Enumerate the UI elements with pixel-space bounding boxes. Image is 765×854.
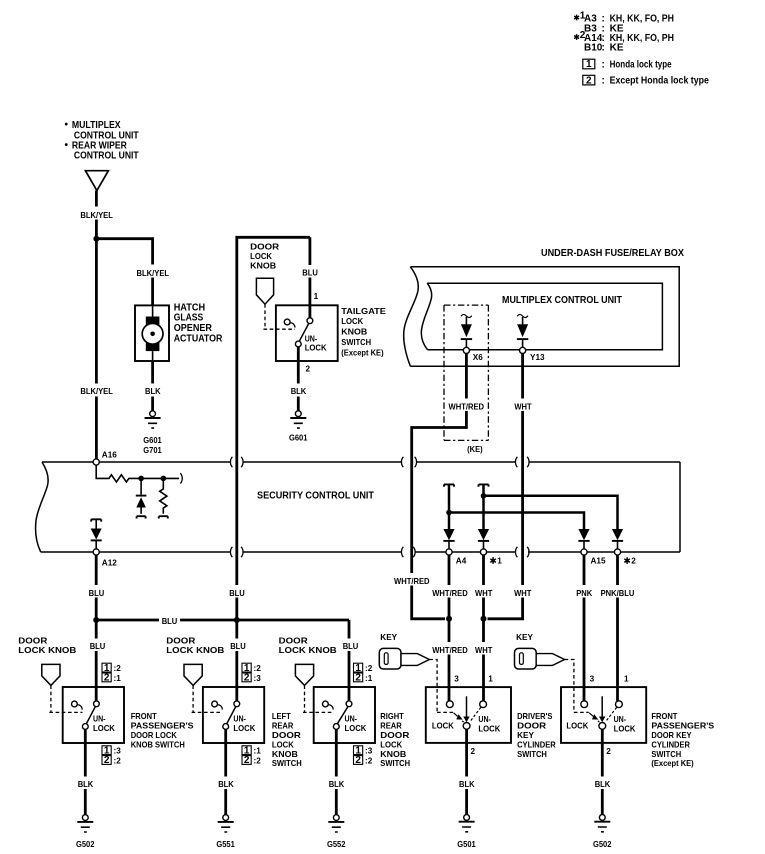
svg-text::: :	[602, 43, 605, 54]
junction dot internal 2	[161, 476, 167, 482]
dashed KE variant box	[444, 305, 488, 440]
svg-text:DOOR: DOOR	[380, 731, 409, 740]
dashed link key driver	[429, 660, 453, 713]
svg-text:BLK/YEL: BLK/YEL	[80, 387, 113, 396]
knob switch 3 box	[314, 687, 375, 743]
svg-text:LOCK: LOCK	[614, 724, 636, 733]
label BLU tailgate	[301, 265, 319, 278]
svg-text:A16: A16	[102, 451, 117, 460]
svg-text:WHT/RED: WHT/RED	[432, 589, 468, 598]
diode X6 inside multiplex unit	[461, 314, 472, 353]
svg-text:DOOR: DOOR	[18, 636, 47, 645]
knob pentagon 1	[42, 664, 60, 685]
front passenger's door key cylinder switch box	[561, 687, 646, 743]
svg-text:G501: G501	[457, 840, 476, 849]
svg-text:BLK: BLK	[595, 780, 611, 789]
svg-text:X6: X6	[473, 353, 483, 362]
dashed arrow key driver	[454, 713, 465, 723]
svg-text:BLK: BLK	[145, 387, 161, 396]
svg-text:3: 3	[454, 675, 459, 684]
svg-text:3: 3	[590, 675, 595, 684]
label DOOR LOCK KNOB 2	[166, 636, 224, 654]
svg-text:BLK: BLK	[78, 780, 94, 789]
multiplex control unit box with torn edge	[421, 283, 662, 350]
svg-text::1: :1	[365, 674, 373, 683]
zener diode internal	[136, 478, 147, 518]
label UN-LOCK tailgate	[305, 335, 327, 353]
svg-text:GLASS: GLASS	[174, 313, 204, 324]
svg-text:•: •	[65, 140, 69, 151]
svg-text:BLK: BLK	[459, 780, 475, 789]
passenger key switch contacts	[581, 701, 623, 730]
svg-text:BLU: BLU	[162, 617, 178, 626]
svg-text::: :	[602, 59, 605, 70]
svg-text::2: :2	[114, 756, 122, 765]
wire BLK knob switch 1	[84, 729, 87, 814]
svg-text:2: 2	[606, 747, 611, 756]
svg-text:UN-: UN-	[93, 715, 106, 724]
svg-text:CONTROL UNIT: CONTROL UNIT	[74, 151, 139, 162]
tailgate knob pentagon	[256, 278, 273, 304]
note multiplex / rear wiper control unit	[65, 120, 139, 162]
svg-text:1: 1	[488, 675, 493, 684]
svg-text:DOOR: DOOR	[166, 636, 195, 645]
svg-text:G601: G601	[143, 436, 162, 445]
svg-text:REAR WIPER: REAR WIPER	[72, 140, 128, 151]
svg-text:PNK/BLU: PNK/BLU	[601, 589, 635, 598]
svg-text:2: 2	[306, 365, 311, 374]
svg-text:KNOB: KNOB	[272, 750, 298, 759]
svg-text:(Except KE): (Except KE)	[651, 759, 694, 768]
legend boxed 2 Except Honda lock type	[583, 75, 709, 86]
connector triangle to control units	[85, 171, 108, 191]
label UN-LOCK switch 3	[345, 715, 367, 733]
label BLU tailgate net below box	[228, 585, 247, 598]
wire *1 stub to *2	[484, 496, 618, 530]
lever arrow driver key switch	[463, 696, 469, 722]
svg-text:CYLINDER: CYLINDER	[517, 740, 556, 749]
diode A4	[443, 529, 454, 555]
svg-text:KNOB SWITCH: KNOB SWITCH	[131, 740, 185, 749]
horizontal BLU bus wire	[96, 620, 349, 701]
label DOOR LOCK KNOB 3	[279, 636, 337, 654]
svg-text:2: 2	[586, 75, 592, 86]
wire A4 stub to A15	[449, 513, 584, 530]
svg-text::2: :2	[365, 756, 373, 765]
svg-text:LOCK: LOCK	[478, 724, 500, 733]
svg-text:2: 2	[244, 755, 250, 766]
legend boxed 1 Honda lock type	[583, 59, 672, 70]
svg-text:FRONT: FRONT	[651, 712, 677, 721]
svg-text:PASSENGER'S: PASSENGER'S	[131, 722, 194, 731]
label WHT below Y13	[513, 399, 533, 412]
svg-text:BLK/YEL: BLK/YEL	[137, 269, 170, 278]
diode *1	[478, 529, 489, 555]
svg-text:MULTIPLEX: MULTIPLEX	[72, 120, 121, 131]
svg-text:A15: A15	[591, 557, 606, 566]
motor symbol of actuator	[142, 305, 163, 361]
svg-text:OPENER: OPENER	[174, 323, 213, 334]
svg-text:LOCK: LOCK	[250, 252, 272, 261]
ground G552 knob switch 3	[327, 815, 346, 849]
svg-text:SWITCH: SWITCH	[380, 759, 410, 768]
stub *1 with end bar	[479, 484, 489, 529]
wire PNK from A15 down	[583, 555, 586, 701]
svg-text:SWITCH: SWITCH	[651, 750, 681, 759]
label right rear door lock knob switch	[380, 712, 410, 768]
label BLK/YEL upper	[80, 207, 113, 221]
svg-text:1: 1	[314, 292, 319, 301]
svg-text:RIGHT: RIGHT	[380, 712, 404, 721]
label *1	[490, 557, 496, 564]
svg-text::1: :1	[254, 747, 262, 756]
junction dot BLU row mid	[234, 617, 240, 623]
boxed pin codes knob switch 1 top	[102, 663, 121, 684]
dashed link key passenger	[565, 660, 589, 713]
boxed pin codes knob switch 2 bottom	[242, 745, 261, 766]
svg-text:KNOB: KNOB	[341, 328, 367, 337]
lever arrow passenger key switch	[599, 696, 605, 722]
junction dot A4 stub	[446, 510, 452, 516]
svg-text:BLK/YEL: BLK/YEL	[80, 211, 113, 220]
svg-text:LOCK KNOB: LOCK KNOB	[166, 646, 224, 655]
label DOOR LOCK KNOB 1	[18, 636, 76, 654]
svg-text:DOOR: DOOR	[272, 731, 301, 740]
svg-text:KNOB: KNOB	[380, 750, 406, 759]
svg-text:KNOB: KNOB	[250, 261, 276, 270]
svg-text::2: :2	[365, 664, 373, 673]
connector A16 circle	[93, 459, 99, 465]
label BLU above knob switch 1	[88, 639, 107, 652]
svg-text:G701: G701	[143, 446, 162, 455]
connector A12 circle	[93, 549, 99, 555]
svg-text:(KE): (KE)	[467, 445, 483, 454]
svg-text:DRIVER'S: DRIVER'S	[517, 712, 553, 721]
dashed link knob 3	[303, 685, 334, 712]
label BLK/YEL branch	[136, 265, 169, 279]
svg-text:UN-: UN-	[345, 715, 358, 724]
boxed pin codes knob switch 3 bottom	[354, 745, 373, 766]
label WHT/RED below junction	[432, 642, 469, 655]
svg-text:LOCK: LOCK	[93, 724, 115, 733]
label front passenger's door lock knob switch	[131, 712, 194, 749]
label BLK tailgate	[289, 384, 309, 397]
junction dot *1 stub	[481, 493, 487, 499]
svg-text:BLU: BLU	[230, 642, 246, 651]
svg-text::2: :2	[114, 664, 122, 673]
svg-text:WHT: WHT	[514, 589, 531, 598]
svg-text:WHT/RED: WHT/RED	[432, 646, 468, 655]
svg-text:2: 2	[355, 755, 361, 766]
label UN-LOCK switch 2	[233, 715, 255, 733]
label BLK 2	[216, 777, 236, 790]
label BLU on bus	[159, 614, 180, 627]
boxed pin codes knob switch 2 top	[242, 663, 261, 684]
ground G501 driver	[457, 815, 476, 850]
svg-text:SWITCH: SWITCH	[272, 759, 302, 768]
label BLK driver	[457, 777, 477, 790]
driver's door key cylinder switch box	[426, 687, 511, 743]
label PNK	[574, 585, 594, 598]
label hatch glass opener actuator	[174, 302, 223, 344]
dashed link knob 2	[192, 685, 223, 712]
ground G601 tailgate	[289, 411, 308, 443]
svg-text:LOCK KNOB: LOCK KNOB	[18, 646, 76, 655]
svg-text:BLU: BLU	[89, 589, 105, 598]
diode Y13 inside multiplex unit	[517, 314, 528, 353]
svg-text:BLU: BLU	[229, 589, 245, 598]
label WHT above junction	[474, 585, 494, 598]
svg-text:1: 1	[586, 59, 592, 70]
label front passenger's door key cylinder switch	[651, 712, 714, 768]
svg-text:WHT: WHT	[475, 589, 492, 598]
knob switch 3 contacts and lever	[323, 701, 352, 730]
label left rear door lock knob switch	[272, 712, 302, 768]
svg-text:2: 2	[355, 673, 361, 684]
svg-text:DOOR KEY: DOOR KEY	[651, 731, 692, 740]
svg-text:WHT: WHT	[514, 403, 531, 412]
svg-text:A12: A12	[102, 558, 117, 567]
svg-text:Y13: Y13	[530, 353, 545, 362]
svg-text::3: :3	[365, 747, 373, 756]
junction dot WHT	[481, 616, 487, 622]
knob switch 1 box	[63, 687, 124, 743]
svg-text:LOCK: LOCK	[566, 721, 588, 730]
label BLK 1	[76, 777, 96, 790]
svg-text:2: 2	[104, 755, 110, 766]
junction dot internal 1	[138, 476, 144, 482]
svg-text:LOCK: LOCK	[233, 724, 255, 733]
label UN-LOCK driver	[478, 715, 500, 733]
svg-text:B10: B10	[584, 43, 603, 54]
svg-text:FRONT: FRONT	[131, 712, 157, 721]
svg-text:2: 2	[471, 747, 476, 756]
wire PNK/BLU from *2 down	[616, 555, 619, 701]
svg-text:BLU: BLU	[343, 642, 359, 651]
svg-text:Except Honda lock type: Except Honda lock type	[610, 76, 710, 87]
label *2	[624, 557, 630, 564]
key symbol driver	[379, 648, 429, 669]
svg-text:DOOR: DOOR	[250, 242, 279, 251]
svg-text:WHT/RED: WHT/RED	[394, 577, 430, 586]
svg-text:UN-: UN-	[478, 715, 491, 724]
svg-text:MULTIPLEX CONTROL UNIT: MULTIPLEX CONTROL UNIT	[502, 295, 622, 306]
svg-text:UN-: UN-	[233, 715, 246, 724]
wire branch to hatch actuator	[96, 239, 152, 306]
svg-text:DOOR LOCK: DOOR LOCK	[131, 731, 177, 740]
svg-text:SECURITY CONTROL UNIT: SECURITY CONTROL UNIT	[257, 491, 374, 502]
wire BLK driver key switch	[465, 729, 468, 814]
security box bottom line segments	[41, 551, 680, 553]
key symbol passenger	[515, 648, 565, 669]
driver key switch contacts	[446, 701, 486, 730]
svg-text:UN-: UN-	[305, 335, 318, 344]
svg-text:ACTUATOR: ACTUATOR	[174, 334, 223, 345]
label WHT below junction	[474, 642, 494, 655]
svg-text:A4: A4	[456, 557, 467, 566]
svg-text:G551: G551	[216, 840, 235, 849]
label BLU above knob switch 3	[341, 639, 360, 652]
svg-text:KEY: KEY	[380, 633, 397, 642]
wire WHT from Y13	[488, 354, 523, 619]
knob switch 2 box	[203, 687, 264, 743]
svg-text:DOOR: DOOR	[279, 636, 308, 645]
boxed pin codes knob switch 1 bottom	[102, 745, 121, 766]
resistor internal vertical	[159, 478, 168, 518]
wire BLK from actuator to ground	[151, 361, 154, 411]
svg-text:LOCK: LOCK	[341, 317, 363, 326]
label PNK/BLU	[599, 585, 636, 598]
diode A15	[578, 529, 589, 555]
svg-text::: :	[602, 76, 605, 87]
junction dot WHT/RED	[446, 616, 452, 622]
svg-text:Honda lock type: Honda lock type	[610, 59, 672, 70]
svg-text:REAR: REAR	[380, 722, 401, 731]
svg-text:LOCK KNOB: LOCK KNOB	[279, 646, 337, 655]
svg-text:•: •	[65, 120, 69, 131]
break hooks on security box lines	[230, 457, 529, 557]
svg-text:KEY: KEY	[516, 633, 533, 642]
wire BLU from A12 down to front passenger knob switch	[95, 555, 98, 701]
svg-text:BLK: BLK	[218, 780, 234, 789]
svg-text:WHT: WHT	[475, 646, 492, 655]
svg-text:CYLINDER: CYLINDER	[651, 740, 690, 749]
svg-text:BLK: BLK	[329, 780, 345, 789]
dashed link tailgate knob to switch	[264, 304, 296, 329]
svg-text:G552: G552	[327, 840, 346, 849]
svg-text:BLU: BLU	[302, 269, 318, 278]
wire WHT/RED from A4 down to driver key switch	[448, 555, 451, 701]
tailgate switch contacts and lever	[284, 318, 312, 347]
knob pentagon 2	[184, 664, 202, 685]
knob switch 1 contacts and lever	[72, 701, 100, 730]
hatch glass opener actuator box	[135, 305, 169, 361]
svg-text::1: :1	[114, 674, 122, 683]
ground G601 G701	[143, 411, 162, 455]
svg-text:LEFT: LEFT	[272, 712, 291, 721]
svg-text:REAR: REAR	[272, 722, 293, 731]
wire WHT from *1 down to driver key switch	[482, 555, 485, 701]
ground G551 knob switch 2	[216, 815, 235, 849]
wire BLK passenger key switch	[601, 729, 604, 814]
label UN-LOCK switch 1	[93, 715, 115, 733]
security box right edge	[679, 462, 681, 552]
label BLU below A12	[87, 585, 106, 598]
label BLK actuator	[143, 384, 163, 397]
wire BLU tailgate knob net	[235, 237, 310, 701]
svg-text:SWITCH: SWITCH	[517, 750, 547, 759]
svg-text:LOCK: LOCK	[432, 721, 454, 730]
label WHT/RED pass-through	[394, 573, 431, 586]
knob pentagon 3	[295, 664, 313, 685]
svg-text::3: :3	[254, 674, 262, 683]
svg-text:G502: G502	[593, 840, 612, 849]
svg-text:1: 1	[624, 675, 629, 684]
wire BLK/YEL vertical from triangle to A16	[95, 191, 98, 462]
svg-text:LOCK: LOCK	[380, 740, 402, 749]
wire WHT/RED from X6	[412, 354, 467, 619]
svg-text:UNDER-DASH FUSE/RELAY BOX: UNDER-DASH FUSE/RELAY BOX	[541, 248, 684, 259]
svg-text:KEY: KEY	[517, 731, 534, 740]
internal wire end hook	[180, 473, 182, 483]
label WHT pass-through Y13	[513, 585, 533, 598]
label BLK passenger	[593, 777, 613, 790]
security box torn left edge	[36, 462, 49, 552]
svg-text:G601: G601	[289, 434, 308, 443]
svg-text:UN-: UN-	[614, 715, 627, 724]
svg-text::3: :3	[114, 747, 122, 756]
dashed arrow key passenger	[589, 713, 600, 723]
svg-text::2: :2	[254, 756, 262, 765]
svg-text:PASSENGER'S: PASSENGER'S	[651, 722, 714, 731]
diode *2	[612, 529, 623, 555]
label BLK/YEL above A16	[80, 384, 113, 397]
svg-text:KE: KE	[610, 43, 624, 54]
knob switch 2 contacts and lever	[212, 701, 240, 730]
svg-text:2: 2	[244, 673, 250, 684]
wire BLK knob switch 3	[335, 729, 338, 814]
boxed pin codes knob switch 3 top	[354, 663, 373, 684]
diode to A12 internal	[91, 519, 102, 549]
svg-text:BLU: BLU	[90, 642, 106, 651]
label DOOR LOCK KNOB tailgate	[250, 242, 279, 270]
svg-text:HATCH: HATCH	[174, 302, 205, 313]
under-dash fuse/relay box outline with torn edge	[404, 267, 680, 367]
tailgate lock knob switch box	[276, 305, 338, 361]
svg-text:G502: G502	[76, 840, 95, 849]
label UN-LOCK passenger	[614, 715, 636, 733]
label BLK 3	[327, 777, 347, 790]
svg-text:BLK: BLK	[291, 387, 307, 396]
svg-text:(Except KE): (Except KE)	[341, 348, 384, 357]
svg-text:LOCK: LOCK	[345, 724, 367, 733]
svg-text:1: 1	[497, 557, 502, 566]
security control unit box top line segments	[42, 461, 680, 463]
dashed link knob 1	[49, 685, 82, 712]
svg-text:DOOR: DOOR	[517, 722, 546, 731]
svg-text:LOCK: LOCK	[305, 344, 327, 353]
ground G502 passenger	[593, 815, 612, 850]
dashed diagonal unlock contact passenger	[606, 707, 617, 721]
svg-text:2: 2	[104, 673, 110, 684]
stub A4 with end bar	[444, 484, 454, 529]
label driver's door key cylinder switch	[517, 712, 556, 759]
label WHT/RED above junction	[432, 585, 469, 598]
internal wire from A16 with resistor R	[96, 465, 179, 482]
dashed diagonal unlock contact driver	[470, 707, 481, 721]
legend note *1 connector variants	[574, 10, 674, 53]
svg-text:PNK: PNK	[576, 589, 592, 598]
label WHT/RED below X6	[448, 399, 485, 412]
ground G502 knob switch 1	[76, 815, 95, 849]
svg-text:TAILGATE: TAILGATE	[341, 307, 386, 316]
junction dot top branch	[93, 236, 99, 242]
wire BLK knob switch 2	[224, 729, 227, 814]
svg-text:SWITCH: SWITCH	[341, 338, 371, 347]
wire BLK tailgate to ground	[297, 347, 300, 411]
svg-text:LOCK: LOCK	[272, 740, 294, 749]
junction dot BLU row left	[93, 617, 99, 623]
svg-text:2: 2	[631, 557, 636, 566]
svg-text::2: :2	[254, 664, 262, 673]
svg-text:WHT/RED: WHT/RED	[449, 403, 485, 412]
label tailgate lock knob switch	[341, 307, 386, 358]
label BLU above knob switch 2	[229, 639, 248, 652]
